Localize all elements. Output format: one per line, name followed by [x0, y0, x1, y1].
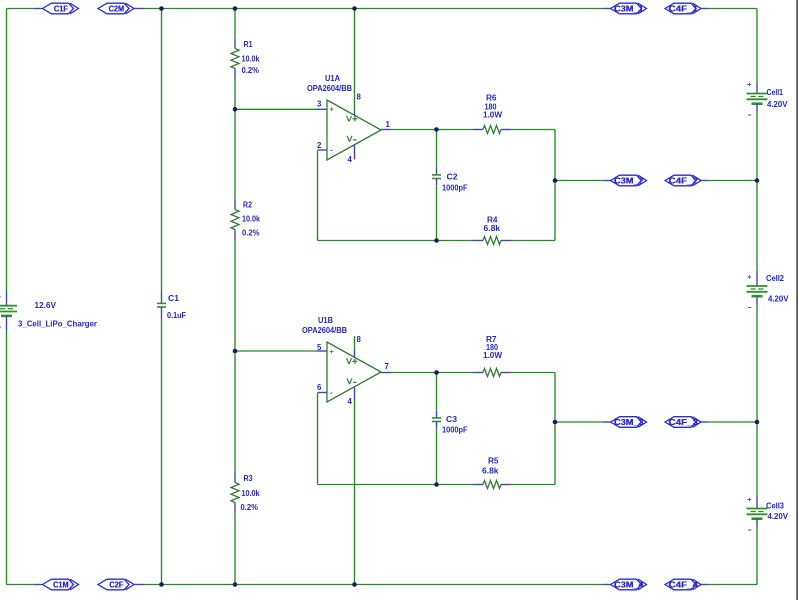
- svg-text:+: +: [330, 105, 335, 114]
- svg-text:R5: R5: [488, 457, 499, 466]
- svg-text:0.2%: 0.2%: [241, 503, 259, 512]
- svg-text:C3M_4: C3M_4: [614, 581, 644, 590]
- svg-text:10.0k: 10.0k: [242, 489, 260, 498]
- svg-text:C1F: C1F: [54, 5, 68, 14]
- svg-text:6.8k: 6.8k: [484, 224, 501, 233]
- svg-text:10.0k: 10.0k: [242, 215, 260, 224]
- svg-text:C2M: C2M: [109, 5, 125, 14]
- svg-text:1: 1: [386, 120, 391, 129]
- svg-text:C1: C1: [168, 294, 180, 303]
- svg-text:0.2%: 0.2%: [242, 229, 260, 238]
- svg-text:Cell3: Cell3: [766, 502, 785, 511]
- svg-text:8: 8: [357, 93, 362, 102]
- svg-text:4.20V: 4.20V: [767, 100, 788, 109]
- svg-text:+: +: [330, 347, 335, 356]
- svg-text:1000pF: 1000pF: [442, 426, 468, 435]
- svg-text:4.20V: 4.20V: [768, 512, 789, 521]
- svg-text:1.0W: 1.0W: [483, 351, 502, 360]
- svg-text:2: 2: [317, 141, 322, 150]
- svg-text:7: 7: [385, 362, 389, 371]
- svg-text:0.2%: 0.2%: [242, 66, 260, 75]
- svg-text:R1: R1: [244, 40, 253, 49]
- svg-text:4: 4: [348, 155, 353, 164]
- svg-text:C3: C3: [446, 415, 458, 424]
- svg-text:U1B: U1B: [318, 316, 333, 325]
- svg-text:OPA2604/BB: OPA2604/BB: [302, 326, 347, 335]
- svg-text:U1A: U1A: [325, 74, 340, 83]
- svg-text:-: -: [330, 387, 333, 397]
- svg-text:Cell2: Cell2: [766, 274, 785, 283]
- svg-text:C3M_3: C3M_3: [614, 418, 644, 427]
- svg-text:C4F_4: C4F_4: [669, 581, 699, 590]
- svg-text:3: 3: [317, 100, 322, 109]
- svg-text:-: -: [330, 145, 333, 155]
- svg-text:C2F: C2F: [110, 581, 124, 590]
- svg-text:Cell1: Cell1: [767, 88, 784, 97]
- svg-text:0.1uF: 0.1uF: [167, 311, 186, 320]
- svg-text:6.8k: 6.8k: [482, 467, 499, 476]
- svg-text:C4F_3: C4F_3: [669, 418, 699, 427]
- svg-text:C4F_2: C4F_2: [669, 177, 699, 186]
- svg-text:4: 4: [348, 397, 353, 406]
- svg-text:1000pF: 1000pF: [442, 184, 468, 193]
- svg-text:8: 8: [357, 335, 362, 344]
- svg-text:5: 5: [317, 343, 322, 352]
- svg-text:R6: R6: [486, 94, 497, 103]
- svg-text:C2: C2: [447, 173, 459, 182]
- svg-text:C3M_2: C3M_2: [614, 177, 644, 186]
- svg-text:R3: R3: [244, 474, 253, 483]
- svg-text:10.0k: 10.0k: [242, 55, 260, 64]
- svg-text:OPA2604/BB: OPA2604/BB: [307, 84, 352, 93]
- svg-text:C4F_1: C4F_1: [669, 5, 699, 14]
- svg-text:R2: R2: [243, 201, 252, 210]
- svg-text:1.0W: 1.0W: [483, 111, 502, 120]
- svg-text:12.6V: 12.6V: [35, 301, 57, 310]
- svg-text:C1M: C1M: [53, 581, 69, 590]
- svg-text:3_Cell_LiPo_Charger: 3_Cell_LiPo_Charger: [18, 320, 97, 329]
- svg-text:6: 6: [317, 383, 322, 392]
- svg-text:C3M_1: C3M_1: [614, 5, 644, 14]
- svg-text:4.20V: 4.20V: [768, 295, 789, 304]
